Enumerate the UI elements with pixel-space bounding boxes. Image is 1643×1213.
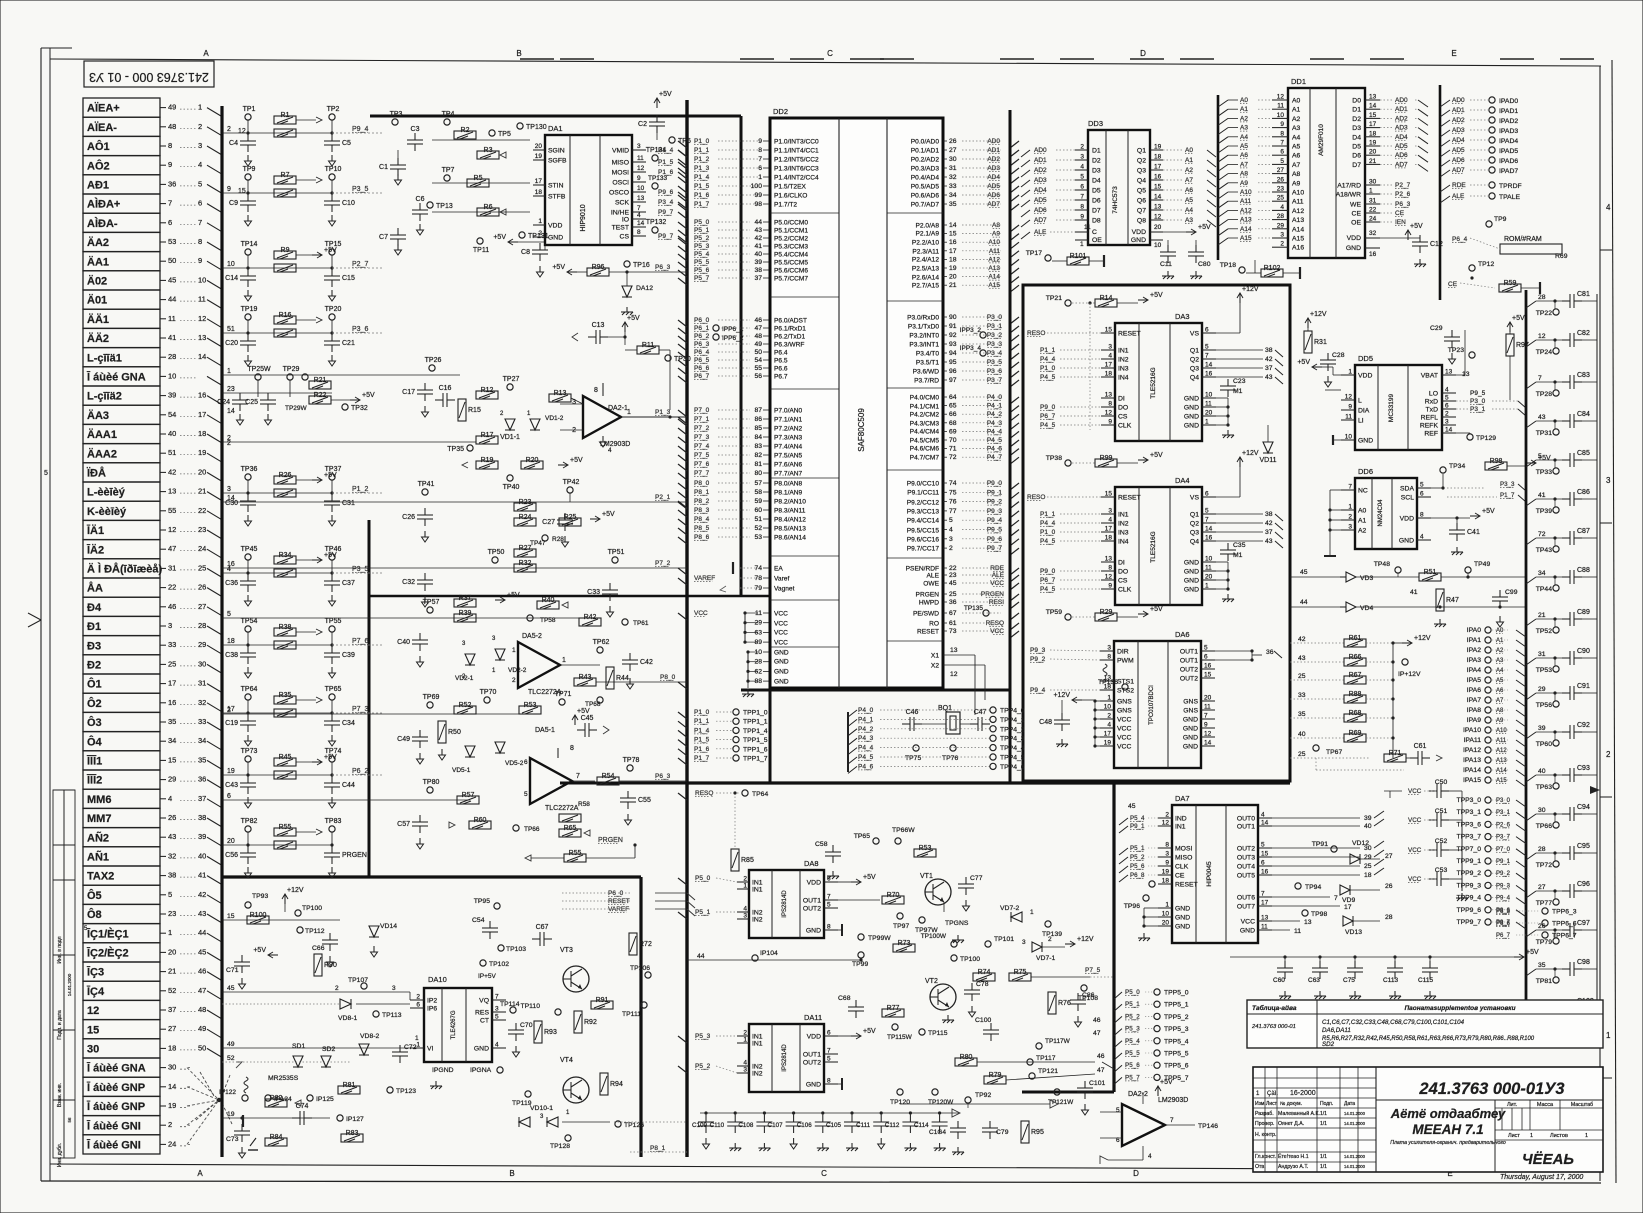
section border: pin fan bus (685, 100, 688, 1157)
svg-text:TP23: TP23 (1448, 347, 1464, 354)
test point (1122, 684, 1128, 690)
svg-text:VCC: VCC (1408, 876, 1422, 883)
svg-text:8: 8 (1080, 204, 1084, 211)
svg-text:17: 17 (535, 178, 543, 185)
test point (669, 137, 675, 143)
svg-text:1/1: 1/1 (1320, 1154, 1327, 1160)
svg-text:49: 49 (754, 341, 762, 348)
svg-text:C101: C101 (1089, 1080, 1105, 1087)
svg-text:241.3763 000-01: 241.3763 000-01 (1251, 1024, 1296, 1030)
svg-text:44: 44 (198, 928, 206, 937)
svg-text:C6: C6 (416, 196, 425, 203)
connector row Đ3 (83, 636, 160, 655)
svg-text:15: 15 (87, 1024, 99, 1036)
capacitor (1562, 1001, 1582, 1015)
svg-text:P3.7/RD: P3.7/RD (914, 378, 939, 385)
svg-text:Ä01: Ä01 (87, 294, 107, 307)
svg-text:SCL: SCL (1401, 495, 1414, 502)
svg-text:TP98: TP98 (1311, 911, 1327, 918)
ground (329, 155, 336, 166)
svg-text:77: 77 (949, 508, 957, 515)
svg-text:23: 23 (949, 572, 957, 579)
svg-text:40: 40 (168, 429, 176, 438)
svg-text:ĪÇ4: ĪÇ4 (86, 986, 105, 998)
svg-text:Листов: Листов (1550, 1133, 1568, 1139)
svg-text:DIR: DIR (1117, 649, 1129, 656)
svg-text:P3.5/T1: P3.5/T1 (916, 360, 939, 367)
svg-text:PSEN/RDF: PSEN/RDF (906, 566, 939, 573)
svg-text:P7_3: P7_3 (694, 434, 710, 441)
svg-text:C20: C20 (225, 340, 238, 347)
svg-text:IP6: IP6 (427, 1006, 437, 1013)
svg-text:23: 23 (168, 909, 176, 918)
Q outputs (1216, 513, 1263, 515)
ground (329, 867, 336, 878)
svg-text:MM6: MM6 (87, 794, 111, 806)
svg-text:18: 18 (1162, 878, 1170, 885)
svg-text:13: 13 (1261, 915, 1269, 922)
ground (758, 1143, 770, 1151)
svg-text:P3.3/INT1: P3.3/INT1 (909, 342, 939, 349)
svg-text:9: 9 (1165, 860, 1169, 867)
svg-text:14: 14 (1204, 740, 1212, 747)
svg-text:R55: R55 (569, 850, 582, 857)
svg-text:+5V: +5V (659, 91, 672, 98)
svg-text:17: 17 (1105, 362, 1113, 369)
svg-text:R24: R24 (519, 514, 532, 521)
svg-text:IPA5: IPA5 (1467, 677, 1481, 684)
power +5V (856, 879, 861, 885)
svg-text:P9_1: P9_1 (987, 489, 1003, 496)
svg-text:39: 39 (1538, 725, 1546, 732)
connector row Ī áùèé GNP (83, 1077, 160, 1096)
svg-text:P3.6/WD: P3.6/WD (913, 369, 940, 376)
test point (477, 238, 483, 244)
svg-text:14: 14 (227, 408, 235, 415)
test point (1485, 707, 1491, 713)
capacitor (1410, 751, 1430, 765)
svg-text:C32: C32 (402, 579, 415, 586)
svg-text:DO: DO (1118, 569, 1128, 576)
test point (1553, 1016, 1559, 1022)
svg-text:TP6: TP6 (678, 138, 691, 145)
test point (1485, 687, 1491, 693)
svg-text:TP99W: TP99W (868, 935, 891, 942)
svg-text:P5_6: P5_6 (694, 267, 710, 274)
svg-text:A11: A11 (1496, 738, 1507, 744)
capacitor (324, 269, 340, 287)
svg-text:TLE5216G: TLE5216G (1150, 367, 1157, 398)
wire fan to bus (207, 223, 222, 232)
capacitor (1562, 884, 1582, 898)
svg-text:P9.2/CC12: P9.2/CC12 (907, 500, 940, 507)
svg-text:30: 30 (949, 156, 957, 163)
svg-text:C1G4: C1G4 (929, 1129, 946, 1136)
svg-text:13: 13 (1304, 919, 1312, 926)
svg-text:Андрузо А.Т.: Андрузо А.Т. (1278, 1164, 1308, 1170)
svg-text:14: 14 (1261, 820, 1269, 827)
svg-text:TxD: TxD (1426, 407, 1439, 414)
capacitor (958, 877, 974, 895)
svg-text:OUT2: OUT2 (1180, 676, 1198, 683)
test point (1154, 1038, 1160, 1044)
test point (507, 384, 513, 390)
svg-text:+12V: +12V (1053, 692, 1070, 699)
svg-text:25: 25 (198, 563, 206, 572)
svg-text:6: 6 (1205, 327, 1209, 334)
svg-text:VCC: VCC (774, 611, 788, 618)
wire fan to bus (207, 991, 222, 1000)
ground (329, 797, 336, 808)
svg-text:AD0: AD0 (987, 138, 1000, 145)
svg-text:5: 5 (495, 1014, 499, 1021)
svg-text:Q1: Q1 (1190, 512, 1199, 519)
svg-text:1: 1 (512, 647, 516, 654)
svg-text:IPAD4: IPAD4 (1499, 138, 1518, 145)
svg-text:1: 1 (1606, 1031, 1611, 1040)
test point (1485, 907, 1491, 913)
svg-text:TP120: TP120 (890, 1099, 910, 1106)
svg-text:P1_7: P1_7 (694, 201, 710, 208)
svg-text:AD3: AD3 (1452, 127, 1465, 134)
svg-text:A11: A11 (1240, 198, 1251, 205)
connector row ĪÄ1 (83, 520, 160, 539)
svg-text:15: 15 (1105, 327, 1113, 334)
svg-text:TP3: TP3 (390, 111, 403, 118)
test point (494, 903, 500, 909)
svg-text:VD14: VD14 (380, 923, 397, 930)
DD2 internal group dividers right (887, 212, 943, 214)
svg-text:P1_0: P1_0 (1040, 529, 1056, 536)
resistor (477, 151, 499, 159)
svg-text:AD2: AD2 (987, 156, 1000, 163)
svg-text:IPGNA: IPGNA (470, 1067, 492, 1074)
capacitor (1387, 961, 1403, 979)
svg-text:19: 19 (227, 768, 235, 775)
GND rail + cap M1 (1216, 397, 1228, 399)
svg-text:C55: C55 (638, 797, 651, 804)
svg-text:33: 33 (168, 640, 176, 649)
svg-text:P9_5: P9_5 (987, 527, 1003, 534)
svg-text:A4: A4 (1185, 207, 1193, 214)
power +5V (355, 397, 360, 403)
svg-text:C115: C115 (1418, 977, 1433, 984)
svg-text:L-çīīä2: L-çīīä2 (87, 391, 122, 403)
svg-text:P4_0: P4_0 (987, 394, 1003, 401)
resistor (274, 329, 296, 337)
capacitor (1054, 713, 1070, 731)
svg-text:8: 8 (637, 229, 641, 236)
svg-text:R19: R19 (481, 457, 494, 464)
svg-text:R59: R59 (1504, 280, 1517, 287)
svg-text:C44: C44 (342, 782, 355, 789)
svg-text:22: 22 (198, 506, 206, 515)
test point TP22 / capacitor C81 (1526, 301, 1536, 308)
test point (713, 334, 719, 340)
section border: connector bus (220, 106, 223, 1157)
svg-text:Малеванный А.К.: Малеванный А.К. (1278, 1110, 1320, 1117)
svg-text:C21: C21 (342, 340, 355, 347)
svg-text:C72: C72 (404, 1044, 417, 1051)
svg-text:13: 13 (1154, 204, 1162, 211)
svg-text:45: 45 (1128, 803, 1136, 810)
svg-text:OUT0: OUT0 (1237, 816, 1255, 823)
svg-text:C110: C110 (710, 1122, 725, 1129)
svg-text:P2.4/A12: P2.4/A12 (912, 257, 939, 264)
svg-text:TP28: TP28 (1536, 391, 1552, 398)
test point (1302, 910, 1308, 916)
resistor (882, 896, 904, 904)
test point (1485, 846, 1491, 852)
resistor (477, 208, 499, 216)
svg-text:8: 8 (570, 745, 574, 752)
svg-text:R23: R23 (519, 499, 532, 506)
resistor (265, 1099, 287, 1107)
svg-text:DA5-1: DA5-1 (535, 727, 555, 734)
capacitor (1562, 846, 1582, 860)
connector row L-èèīèý (83, 482, 160, 501)
test point (245, 249, 251, 255)
svg-text:2: 2 (743, 876, 747, 883)
svg-text:P7_4: P7_4 (694, 443, 710, 450)
wire fan to bus (207, 933, 222, 942)
svg-text:P4_3: P4_3 (987, 420, 1003, 427)
svg-text:RESI: RESI (989, 599, 1004, 606)
svg-text:P5_1: P5_1 (1125, 1001, 1140, 1008)
svg-text:40: 40 (1364, 823, 1372, 830)
svg-text:DA6,DA11: DA6,DA11 (1322, 1027, 1351, 1034)
connector row AÌĐA- (83, 213, 160, 232)
svg-text:16: 16 (1154, 174, 1162, 181)
svg-text:15: 15 (1204, 672, 1212, 679)
svg-text:P4_5: P4_5 (1040, 586, 1056, 593)
svg-text:A5: A5 (1240, 143, 1248, 150)
svg-text:34: 34 (198, 736, 206, 745)
svg-text:7: 7 (1261, 891, 1265, 898)
svg-text:44: 44 (754, 219, 762, 226)
svg-text:52: 52 (168, 986, 176, 995)
ground (537, 266, 544, 277)
svg-text:МЕЕАН 7.1: МЕЕАН 7.1 (1412, 1122, 1483, 1137)
svg-text:8: 8 (1280, 130, 1284, 137)
svg-text:P1_6: P1_6 (694, 746, 710, 753)
svg-text:6: 6 (1204, 654, 1208, 661)
svg-text:1: 1 (1585, 1133, 1588, 1139)
svg-text:R66: R66 (1349, 654, 1362, 661)
svg-text:P1.7/T2: P1.7/T2 (774, 202, 797, 209)
test point (1143, 895, 1149, 901)
wire fan to bus (207, 703, 222, 712)
svg-text:VT4: VT4 (560, 1057, 573, 1064)
svg-text:C52: C52 (1435, 838, 1448, 845)
svg-text:GND: GND (1183, 744, 1198, 751)
ground (245, 355, 252, 366)
svg-text:Аётё отдаабтеу: Аётё отдаабтеу (1390, 1106, 1506, 1121)
resistor (274, 251, 296, 259)
svg-text:1: 1 (415, 1035, 419, 1042)
svg-text:P6_7: P6_7 (694, 373, 710, 380)
svg-text:LO: LO (1429, 391, 1438, 398)
svg-text:P9.4/CC14: P9.4/CC14 (907, 518, 940, 525)
svg-text:10: 10 (198, 275, 206, 284)
svg-text:R22: R22 (314, 392, 327, 399)
svg-text:33: 33 (949, 183, 957, 190)
resistor (1344, 734, 1366, 742)
ground (729, 1143, 741, 1151)
resistor (476, 461, 498, 469)
svg-text:P5_4: P5_4 (694, 251, 710, 258)
DD2 internal group dividers left (770, 212, 839, 214)
connector row ÄA1 (83, 252, 160, 271)
wire fan to bus (207, 760, 222, 769)
capacitor (240, 714, 256, 732)
svg-text:14: 14 (1445, 427, 1453, 434)
ground (329, 595, 336, 606)
svg-text:15: 15 (1369, 112, 1377, 119)
svg-text:42: 42 (1265, 520, 1273, 527)
svg-text:49: 49 (198, 1024, 206, 1033)
power +5V (572, 715, 578, 720)
svg-text:Q8: Q8 (1137, 218, 1146, 225)
svg-text:ĪĪĪ2: ĪĪĪ2 (86, 775, 102, 787)
svg-text:3: 3 (540, 1114, 544, 1120)
svg-text:VCC: VCC (774, 640, 788, 647)
svg-text:R60: R60 (474, 817, 487, 824)
svg-text:AD0: AD0 (1395, 97, 1408, 104)
svg-text:GND: GND (1183, 726, 1198, 733)
svg-text:AM29F010: AM29F010 (1318, 124, 1325, 156)
svg-text:2: 2 (1107, 713, 1111, 720)
svg-text:3: 3 (743, 1067, 747, 1074)
svg-text:GND: GND (548, 235, 563, 242)
ground (1389, 991, 1401, 999)
svg-text:Q3: Q3 (1137, 168, 1146, 175)
test point (932, 1089, 938, 1095)
ground (817, 1143, 829, 1151)
test point (1239, 267, 1245, 273)
DD2 right pin wires (943, 140, 947, 142)
svg-text:22: 22 (949, 565, 957, 572)
svg-text:36: 36 (1266, 649, 1274, 656)
svg-text:P2.2/A10: P2.2/A10 (912, 240, 939, 247)
capacitor (390, 158, 406, 176)
svg-text:TP64: TP64 (752, 791, 768, 798)
test point (484, 697, 490, 703)
svg-text:5: 5 (1445, 395, 1449, 402)
svg-text:P1_5: P1_5 (694, 737, 710, 744)
svg-text:P0.2/AD2: P0.2/AD2 (911, 157, 940, 164)
test point (1154, 1062, 1160, 1068)
svg-text:TPP5_7: TPP5_7 (1164, 1075, 1189, 1082)
svg-text:44: 44 (168, 295, 176, 304)
capacitor (322, 933, 338, 951)
svg-text:C79: C79 (996, 1129, 1009, 1136)
svg-text:DD1: DD1 (1291, 77, 1306, 86)
svg-text:P9.3/CC13: P9.3/CC13 (907, 509, 940, 516)
capacitor (577, 723, 597, 737)
resistor (1095, 299, 1117, 307)
svg-text:50: 50 (198, 1043, 206, 1052)
wire fan to bus (207, 530, 222, 539)
svg-text:5: 5 (1538, 453, 1542, 460)
svg-text:IN2: IN2 (752, 1064, 763, 1071)
ground (1424, 991, 1436, 999)
svg-text:TP100: TP100 (302, 905, 322, 912)
svg-text:TP13: TP13 (436, 203, 453, 210)
svg-text:TP66: TP66 (524, 826, 540, 833)
test point (1485, 809, 1491, 815)
svg-text:16: 16 (1205, 535, 1213, 542)
svg-text:19: 19 (227, 1111, 235, 1118)
svg-text:P1_6: P1_6 (658, 169, 674, 176)
svg-text:P1_3: P1_3 (655, 409, 671, 416)
svg-text:VD10-1: VD10-1 (530, 1105, 553, 1112)
svg-text:P1_2: P1_2 (352, 486, 368, 493)
svg-text:7: 7 (1334, 895, 1338, 902)
test point (387, 1087, 393, 1093)
svg-text:2: 2 (1165, 812, 1169, 819)
test point (295, 910, 301, 916)
svg-text:41: 41 (198, 871, 206, 880)
svg-text:IO: IO (622, 217, 629, 224)
svg-text:R99: R99 (1100, 455, 1113, 462)
svg-text:A6: A6 (1496, 688, 1504, 694)
svg-text:DO: DO (1118, 405, 1128, 412)
svg-text:PRGEN: PRGEN (981, 591, 1004, 598)
svg-text:TP79: TP79 (1536, 939, 1552, 946)
svg-text:TP5: TP5 (498, 131, 511, 138)
svg-text:P5.3/CCM3: P5.3/CCM3 (774, 244, 808, 251)
svg-text:P8.2/AN10: P8.2/AN10 (774, 499, 806, 506)
svg-text:A15: A15 (988, 282, 1000, 289)
svg-text:P5_1: P5_1 (1130, 845, 1145, 852)
wire fan to bus (207, 415, 222, 424)
connector row AΪEA+ (83, 98, 160, 117)
capacitor (844, 1115, 860, 1133)
capacitor (982, 1121, 998, 1139)
test point (990, 745, 996, 751)
svg-text:IN3: IN3 (1118, 366, 1129, 373)
svg-text:12: 12 (1162, 820, 1170, 827)
svg-text:P1_5: P1_5 (658, 159, 674, 166)
svg-text:P8.6/AN14: P8.6/AN14 (774, 535, 806, 542)
resistor (549, 394, 571, 402)
svg-text:C34: C34 (342, 720, 355, 727)
svg-text:AD3: AD3 (987, 165, 1000, 172)
ground (430, 1081, 442, 1089)
svg-text:ÄA2: ÄA2 (87, 236, 109, 249)
svg-text:VAREF: VAREF (694, 575, 715, 582)
wire fan to bus (207, 876, 222, 885)
ground (245, 215, 252, 226)
power +12V (282, 894, 288, 899)
capacitor (1449, 523, 1465, 541)
svg-text:C35: C35 (1233, 542, 1246, 549)
svg-text:37: 37 (1265, 529, 1273, 536)
test point TP79 / capacitor C97 (1526, 930, 1536, 937)
resistor (519, 706, 541, 714)
svg-text:4: 4 (1107, 722, 1111, 729)
svg-text:GND: GND (1399, 538, 1414, 545)
svg-text:Отв.: Отв. (1255, 1164, 1266, 1170)
power +12V (1237, 293, 1243, 298)
svg-text:55: 55 (168, 506, 176, 515)
svg-text:RxD: RxD (1425, 399, 1438, 406)
svg-text:STFB: STFB (548, 194, 566, 201)
svg-text:TP80: TP80 (423, 779, 440, 786)
svg-text:AD5: AD5 (1452, 147, 1465, 154)
test point (1542, 932, 1548, 938)
